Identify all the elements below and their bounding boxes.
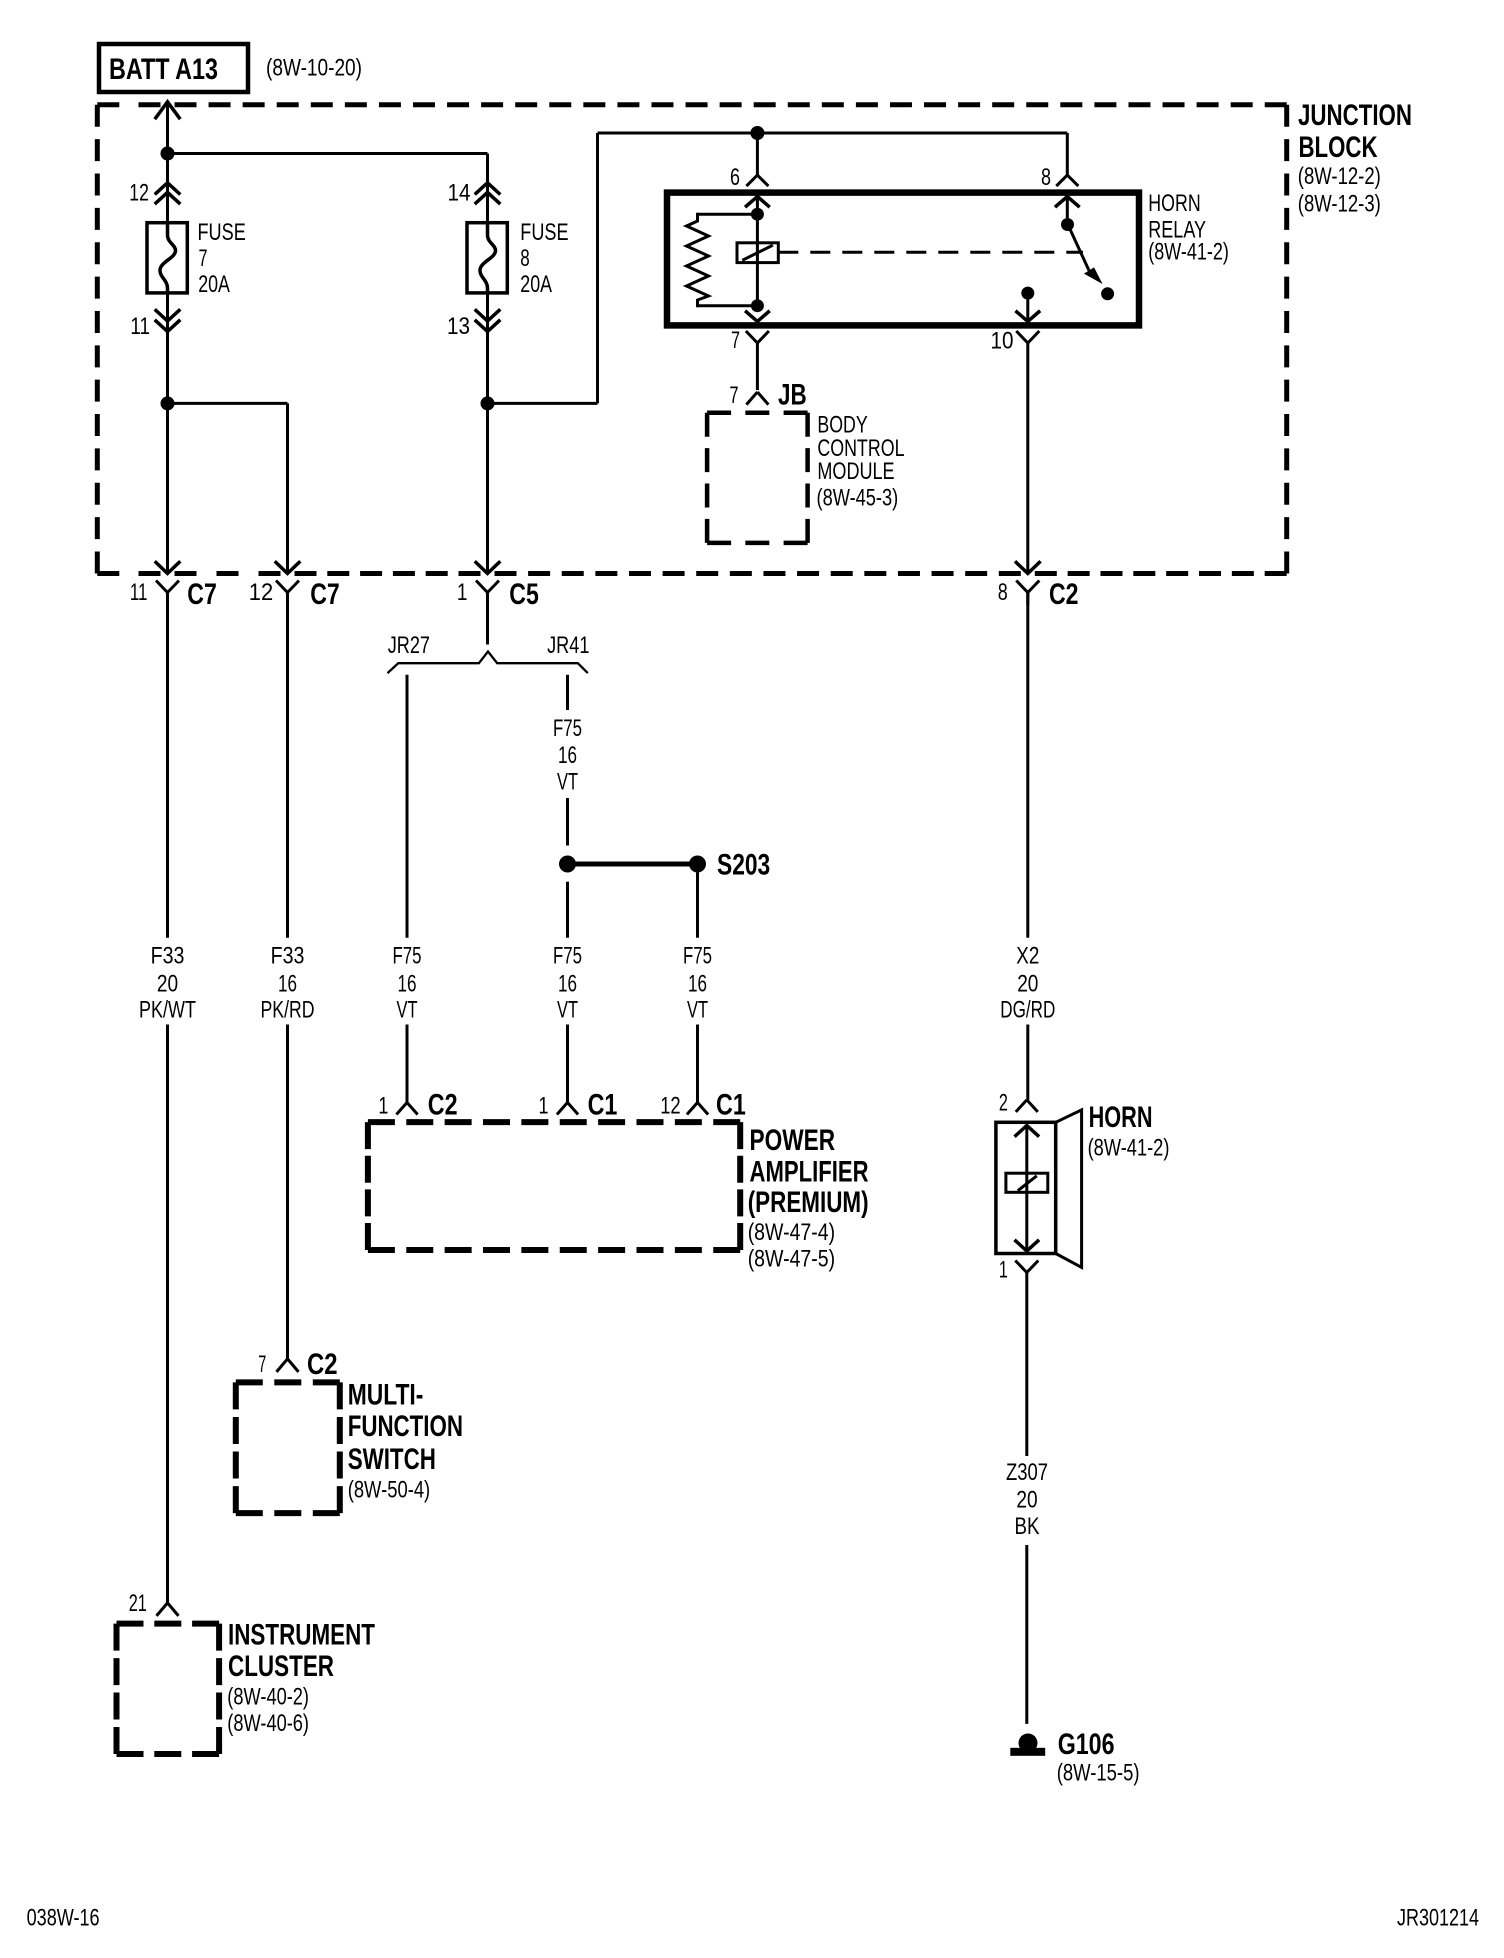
svg-text:(PREMIUM): (PREMIUM)	[748, 1186, 869, 1219]
relay pin 7 internal pin	[746, 312, 768, 322]
svg-text:1: 1	[457, 579, 468, 606]
wire down to relay pin 6	[756, 133, 759, 175]
multi-function switch box	[236, 1382, 340, 1513]
relay pin 8 internal receptacle	[1056, 197, 1078, 219]
wire fuse 8 to connector C5 pin 1	[486, 293, 489, 572]
brace splitting JR27 / JR41	[388, 632, 590, 673]
svg-text:038W-16: 038W-16	[27, 1905, 100, 1932]
svg-text:C2: C2	[307, 1348, 338, 1381]
connector C1 pin 1 (power amplifier)	[539, 1089, 618, 1122]
svg-text:SWITCH: SWITCH	[348, 1443, 436, 1476]
svg-text:12: 12	[249, 579, 273, 606]
svg-text:F75: F75	[553, 943, 582, 970]
connector pin 21 (instrument cluster)	[129, 1590, 179, 1617]
relay pin 10 label	[991, 328, 1040, 355]
svg-text:(8W-10-20): (8W-10-20)	[266, 55, 362, 82]
svg-text:INSTRUMENT: INSTRUMENT	[228, 1619, 375, 1652]
relay coil bottom node	[751, 299, 764, 312]
svg-text:VT: VT	[687, 997, 708, 1024]
svg-text:JR27: JR27	[388, 632, 430, 659]
wire label F33 16 PK/RD	[261, 943, 315, 1024]
fuse 7 20A	[147, 219, 246, 298]
svg-text:HORN: HORN	[1089, 1101, 1153, 1134]
wire C7 pin 12 to multi-function switch (F33 16 PK/RD)	[286, 593, 289, 1359]
wire horn to ground (Z307 20 BK)	[1025, 1273, 1028, 1724]
svg-text:7: 7	[258, 1351, 266, 1378]
connector pin 6 (relay coil)	[730, 164, 768, 191]
svg-text:C1: C1	[588, 1089, 618, 1122]
svg-text:FUSE: FUSE	[520, 219, 568, 246]
wire label F75 16 VT (JR41 upper)	[553, 715, 582, 796]
connector pin 13 (fuse 8 output)	[447, 311, 499, 341]
wire label F75 16 VT (center)	[553, 943, 582, 1024]
junction block label	[1298, 99, 1412, 218]
wire C2 pin 8 to horn (X2 20 DG/RD)	[1026, 593, 1029, 1100]
svg-text:11: 11	[130, 313, 150, 340]
svg-text:C2: C2	[428, 1089, 458, 1122]
svg-text:G106: G106	[1058, 1728, 1115, 1761]
svg-text:JR301214: JR301214	[1397, 1905, 1479, 1932]
svg-text:11: 11	[130, 579, 148, 606]
connector C7 pin 11 at junction block exit	[130, 563, 217, 612]
relay switch NO contact	[1101, 287, 1114, 300]
connector pin 1 (horn)	[999, 1257, 1038, 1284]
svg-text:PK/WT: PK/WT	[139, 997, 196, 1024]
relay actuation dashed link	[778, 251, 1083, 254]
svg-text:X2: X2	[1016, 943, 1039, 970]
wire fuse 8 output to horn relay feed	[488, 133, 1068, 403]
connector 7 JB (body control module)	[730, 379, 807, 412]
svg-text:13: 13	[447, 313, 470, 340]
connector pin 7 (relay output)	[731, 327, 769, 354]
svg-text:F75: F75	[553, 715, 582, 742]
svg-text:MODULE: MODULE	[817, 458, 894, 485]
connector pin 2 (horn)	[999, 1090, 1038, 1117]
svg-text:16: 16	[278, 971, 297, 998]
svg-text:(8W-41-2): (8W-41-2)	[1148, 239, 1229, 266]
svg-text:(8W-15-5): (8W-15-5)	[1057, 1760, 1140, 1787]
horn relay label	[1148, 190, 1229, 266]
wire JR27 to power amplifier C2 (F75 16 VT)	[406, 675, 409, 1103]
svg-text:(8W-47-5): (8W-47-5)	[748, 1246, 835, 1273]
svg-text:(8W-47-4): (8W-47-4)	[748, 1219, 835, 1246]
svg-text:8: 8	[998, 579, 1008, 606]
svg-text:BK: BK	[1015, 1513, 1040, 1540]
body control module label	[817, 411, 905, 511]
connector C2 pin 8 at junction block exit	[998, 563, 1079, 612]
svg-text:VT: VT	[397, 997, 418, 1024]
svg-text:12: 12	[129, 180, 149, 207]
svg-text:(8W-50-4): (8W-50-4)	[348, 1477, 431, 1504]
svg-text:14: 14	[448, 180, 471, 207]
svg-text:(8W-40-6): (8W-40-6)	[227, 1710, 309, 1737]
svg-text:CLUSTER: CLUSTER	[228, 1650, 334, 1683]
svg-text:10: 10	[991, 328, 1014, 355]
svg-text:8: 8	[520, 245, 530, 272]
svg-text:VT: VT	[557, 769, 578, 796]
svg-text:C2: C2	[1049, 578, 1079, 611]
connector pin 11 (fuse 7 output)	[130, 311, 179, 341]
svg-text:MULTI-: MULTI-	[348, 1379, 424, 1412]
svg-text:(8W-41-2): (8W-41-2)	[1088, 1135, 1170, 1162]
instrument cluster box	[117, 1624, 220, 1754]
svg-text:C7: C7	[310, 578, 340, 611]
svg-text:VT: VT	[557, 997, 578, 1024]
svg-text:JB: JB	[778, 379, 807, 412]
wire S203 right leg to power amplifier C1 pin 12	[696, 873, 699, 1103]
svg-text:7: 7	[731, 327, 740, 354]
connector pin 14 (fuse 8 input)	[448, 180, 500, 207]
power amplifier label	[748, 1124, 869, 1273]
svg-text:6: 6	[730, 164, 740, 191]
svg-text:(8W-12-3): (8W-12-3)	[1298, 191, 1381, 218]
wire label F33 20 PK/WT	[139, 943, 196, 1024]
connector pin 12 (fuse 7 input)	[129, 180, 179, 207]
svg-text:C5: C5	[509, 578, 539, 611]
relay pin 10 internal pin	[1017, 293, 1039, 321]
svg-text:F33: F33	[271, 943, 305, 970]
wire label X2 20 DG/RD	[1000, 943, 1055, 1024]
svg-text:DG/RD: DG/RD	[1000, 997, 1055, 1024]
svg-text:8: 8	[1041, 164, 1051, 191]
svg-text:FUNCTION: FUNCTION	[348, 1410, 463, 1443]
svg-text:AMPLIFIER: AMPLIFIER	[750, 1156, 869, 1189]
connector C2 pin 7 (multi-function switch)	[258, 1348, 337, 1381]
label (8W-10-20)	[266, 55, 362, 82]
horn component	[996, 1110, 1082, 1268]
relay switch common contact	[1061, 218, 1074, 231]
fuse 8 20A	[467, 219, 569, 298]
body control module box	[707, 413, 808, 543]
instrument cluster label	[227, 1619, 375, 1738]
svg-text:(8W-12-2): (8W-12-2)	[1298, 163, 1381, 190]
wire S203 left leg to power amplifier C1 pin 1	[566, 882, 569, 1103]
wire down to relay pin 8	[1066, 133, 1069, 175]
svg-text:12: 12	[660, 1093, 681, 1120]
horn relay U1 box	[667, 193, 1139, 326]
svg-text:JR41: JR41	[547, 632, 589, 659]
relay coil top node	[751, 208, 764, 221]
wire relay pin 10 to C2 pin 8	[1026, 343, 1029, 572]
svg-text:20: 20	[157, 971, 178, 998]
connector C2 pin 1 (power amplifier)	[378, 1089, 457, 1122]
wire batt splice to fuse 8	[168, 154, 488, 223]
wire C7 pin 11 to instrument cluster (F33 20 PK/WT)	[166, 593, 169, 1603]
arrow up into BATT A13	[156, 102, 179, 118]
connector C5 pin 1 at junction block exit	[457, 563, 539, 612]
svg-text:20A: 20A	[520, 271, 552, 298]
svg-text:1: 1	[539, 1093, 549, 1120]
junction dot relay coil feed	[750, 126, 764, 140]
relay pin 10 node	[1021, 287, 1034, 300]
relay resistor (coil suppression)	[687, 214, 758, 306]
splice S203	[559, 848, 770, 881]
svg-text:BLOCK: BLOCK	[1299, 131, 1378, 164]
svg-text:7: 7	[730, 382, 739, 409]
svg-text:16: 16	[398, 971, 417, 998]
connector C1 pin 12 (power amplifier)	[660, 1089, 746, 1122]
wire branch to C7 pin 12	[168, 403, 288, 571]
junction dot fuse 7 output	[161, 396, 175, 410]
junction block dashed boundary	[97, 105, 1286, 574]
svg-text:1: 1	[378, 1093, 388, 1120]
svg-text:F75: F75	[393, 943, 422, 970]
svg-text:20: 20	[1016, 1487, 1037, 1514]
junction dot batt splice	[161, 147, 175, 161]
wire label Z307 20 BK	[1006, 1459, 1048, 1540]
svg-text:(8W-40-2): (8W-40-2)	[227, 1684, 309, 1711]
svg-text:(8W-45-3): (8W-45-3)	[817, 485, 899, 512]
svg-text:7: 7	[199, 245, 208, 272]
power amplifier box	[368, 1122, 740, 1250]
svg-text:HORN: HORN	[1148, 190, 1200, 217]
svg-text:F33: F33	[151, 943, 185, 970]
svg-text:C1: C1	[716, 1089, 746, 1122]
multi-function switch label	[348, 1379, 463, 1504]
battery feed box BATT A13	[99, 44, 248, 92]
wire JR41 down to splice S203	[566, 675, 569, 846]
relay coil	[737, 214, 778, 306]
wire fuse 7 to connector C7 pin 11	[166, 293, 169, 572]
sheet number 038W-16	[27, 1905, 100, 1932]
relay pin 6 internal receptacle	[746, 197, 768, 215]
svg-text:Z307: Z307	[1006, 1459, 1048, 1486]
svg-text:16: 16	[558, 742, 577, 769]
svg-text:C7: C7	[187, 578, 217, 611]
wire label F75 16 VT (JR27)	[393, 943, 422, 1024]
svg-text:16: 16	[558, 971, 577, 998]
svg-text:FUSE: FUSE	[198, 219, 246, 246]
svg-text:20A: 20A	[198, 271, 230, 298]
svg-text:BATT A13: BATT A13	[109, 53, 218, 86]
svg-text:2: 2	[999, 1090, 1008, 1117]
relay switch arm with arrowhead	[1069, 227, 1103, 284]
svg-text:1: 1	[999, 1257, 1008, 1284]
connector C7 pin 12 at junction block exit	[249, 563, 340, 612]
svg-text:16: 16	[688, 971, 707, 998]
svg-text:F75: F75	[683, 943, 712, 970]
wire battery feed to fuse 7	[166, 102, 169, 222]
connector pin 8 (relay common)	[1041, 164, 1078, 191]
svg-text:20: 20	[1017, 971, 1038, 998]
wire C5 pin 1 down to splice brace	[486, 593, 489, 645]
svg-text:JUNCTION: JUNCTION	[1298, 99, 1412, 132]
svg-text:S203: S203	[717, 848, 770, 881]
horn label	[1088, 1101, 1170, 1162]
junction dot fuse 8 output	[481, 396, 495, 410]
wire relay pin 7 to BCM	[756, 343, 759, 390]
ground G106	[1010, 1728, 1139, 1787]
wire label F75 16 VT (right)	[683, 943, 712, 1024]
svg-text:PK/RD: PK/RD	[261, 997, 315, 1024]
svg-text:POWER: POWER	[750, 1124, 836, 1157]
svg-text:21: 21	[129, 1590, 147, 1617]
drawing number JR301214	[1397, 1905, 1479, 1932]
